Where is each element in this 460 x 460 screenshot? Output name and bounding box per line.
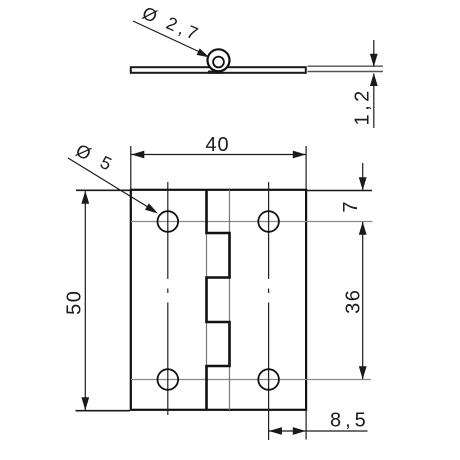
label 50	[64, 290, 86, 315]
label 8,5	[330, 410, 370, 432]
label hole diameter 5	[73, 140, 119, 176]
dimension 8,5 line and arrows	[269, 427, 368, 435]
width dimension 40 line and arrows	[131, 151, 306, 159]
hole bottom-right	[258, 369, 279, 390]
hinge leaf right thin (edge view, second leaf)	[308, 66, 384, 71]
svg-text:40: 40	[205, 134, 229, 156]
knuckle outer circle (edge view)	[208, 49, 230, 71]
height dimension 50 extension lines	[76, 190, 131, 410]
thickness dimension line 1,2	[370, 40, 378, 128]
centerline vertical left hole	[167, 182, 169, 415]
svg-text:1,2: 1,2	[352, 87, 374, 125]
centerline horizontal bottom holes	[131, 379, 371, 381]
svg-text:36: 36	[343, 289, 365, 314]
hinge pin inner circle (edge view)	[213, 57, 224, 68]
leader line for pin diameter	[133, 21, 209, 57]
svg-text:7: 7	[340, 200, 362, 212]
hole top-right	[258, 211, 279, 232]
knuckle fill patch	[208, 71, 223, 74]
dimension 7 line and arrows	[359, 163, 367, 190]
knuckle slot right thin line	[229, 190, 231, 410]
svg-text:Ø 5: Ø 5	[73, 140, 119, 176]
right edge extension below	[305, 411, 307, 440]
label thickness 1,2	[352, 87, 374, 125]
label 36	[343, 289, 365, 314]
centerline vertical right hole	[268, 182, 270, 440]
height dimension 50 line and arrows	[81, 191, 89, 410]
hinge leaf outline (front view rectangle)	[131, 190, 306, 410]
label pin diameter 2,7	[139, 3, 203, 45]
top edge extension to right	[306, 190, 372, 192]
knuckle thick zigzag line	[207, 190, 230, 410]
width dimension 40 extension lines	[131, 146, 306, 190]
svg-text:8,5: 8,5	[330, 410, 370, 432]
knuckle slot left thin line	[206, 190, 208, 410]
label 7	[340, 200, 362, 212]
centerline horizontal top holes	[131, 221, 373, 223]
svg-text:50: 50	[64, 290, 86, 315]
leader line for hole diameter 5	[68, 158, 158, 214]
label 40	[205, 134, 229, 156]
hole top-left	[158, 211, 179, 232]
hinge leaf left (edge view bar)	[131, 67, 306, 73]
hole bottom-left	[158, 369, 179, 390]
dimension 36 line and arrows	[359, 222, 367, 380]
